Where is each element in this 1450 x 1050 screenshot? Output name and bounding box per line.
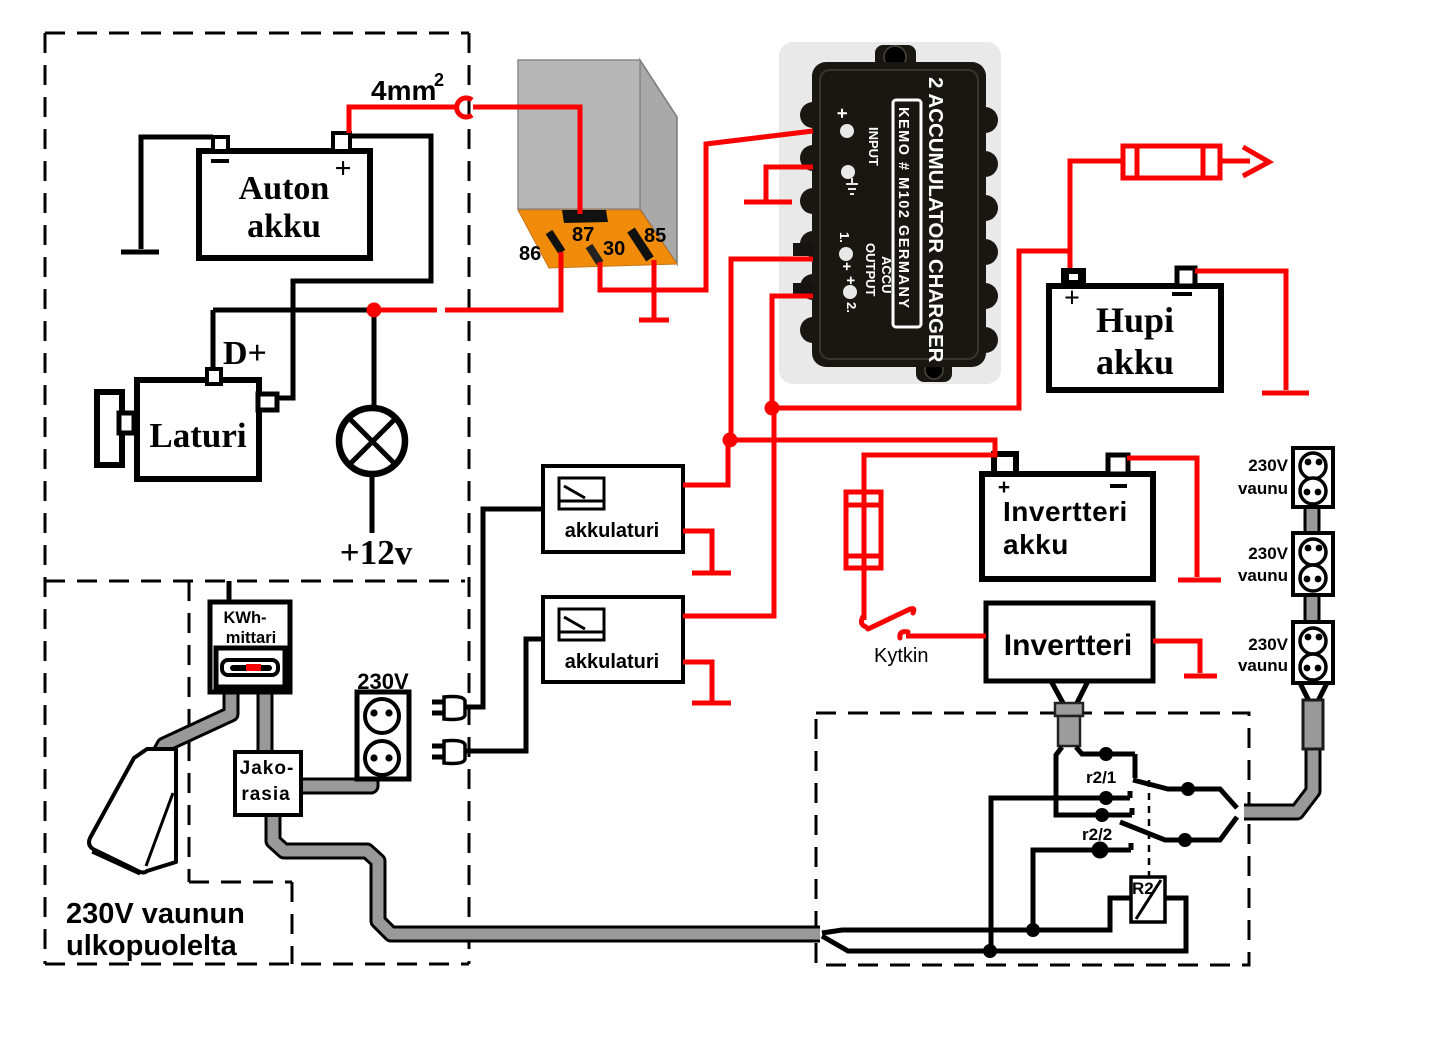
wire: contact row4	[1033, 843, 1131, 930]
ground: Invertteri ground	[1184, 674, 1217, 679]
wire: KWh-meter feed stub	[227, 581, 232, 602]
wire: contact row2	[991, 791, 1130, 951]
box: Jako-rasia	[235, 752, 301, 815]
wire: mains L to relay coil	[822, 898, 1132, 933]
node: junction on N wire	[983, 944, 997, 958]
svg-text:230V: 230V	[1248, 635, 1288, 654]
contact r2/1 arm	[1086, 768, 1237, 808]
wire: red Invertteri - to ground	[1153, 641, 1200, 673]
node: output2 junction dot	[765, 401, 780, 416]
node: row2 dot	[1099, 791, 1113, 805]
svg-text:230V: 230V	[1248, 456, 1288, 475]
svg-text:Invertteri: Invertteri	[1004, 629, 1132, 662]
svg-text:akku: akku	[1003, 529, 1069, 560]
svg-text:+: +	[838, 262, 855, 271]
svg-text:2 ACCUMULATOR CHARGER: 2 ACCUMULATOR CHARGER	[924, 77, 947, 363]
node: red junction at D+	[367, 303, 382, 318]
wire: mains N to relay coil	[822, 898, 1186, 951]
wire: red Hupi + up to fuse 2	[1070, 161, 1123, 268]
svg-text:+: +	[842, 276, 859, 285]
node: row4 dot	[1092, 842, 1109, 859]
wire: red akkulaturi1 output to bus	[683, 443, 728, 485]
wire: red KEMO output 2 down	[772, 296, 813, 405]
box: 230V outlet in caravan	[357, 669, 409, 779]
svg-text:Jako-: Jako-	[240, 758, 295, 779]
outdoor mains plug (CEE)	[89, 749, 176, 874]
wire: 230V cable Jako-rasia to 230V outlet	[301, 775, 371, 786]
svg-text:KEMO # M102 GERMANY: KEMO # M102 GERMANY	[895, 107, 911, 310]
ground: Hupi minus ground	[1262, 391, 1309, 396]
wire: D+ node wire	[213, 310, 374, 369]
outlet: 230V vaunu 1	[1238, 448, 1333, 507]
svg-text:+: +	[1064, 283, 1080, 314]
svg-text:4mm: 4mm	[371, 75, 436, 106]
svg-text:vaunu: vaunu	[1238, 479, 1288, 498]
wire: inverter output V to plug	[1051, 681, 1088, 703]
svg-text:KWh-: KWh-	[223, 609, 266, 627]
svg-text:OUTPUT: OUTPUT	[863, 243, 878, 297]
wire: plug L to contact row3	[1056, 747, 1132, 815]
text: 4mm2 wire label	[371, 70, 444, 106]
ground: relay 85 ground	[639, 318, 669, 323]
battery: Auton akku	[199, 133, 370, 258]
svg-text:INPUT: INPUT	[866, 127, 881, 166]
wire: red akkulaturi1 ground	[683, 531, 712, 571]
svg-text:ACCU: ACCU	[879, 256, 894, 294]
box: Laturi (alternator)	[97, 369, 277, 479]
svg-text:vaunu: vaunu	[1238, 566, 1288, 585]
svg-text:+12v: +12v	[340, 533, 413, 572]
wire: red Hupi - to ground	[1195, 271, 1286, 390]
wire: red output1 bus to Invertteri akku + and fuse	[731, 440, 995, 620]
wire: red from Auton akku + to relay 87	[349, 98, 580, 214]
contact r2/2 arm	[1082, 817, 1237, 847]
ground: akkulaturi2 ground	[692, 701, 731, 706]
wire: red relay 30 to KEMO input +	[600, 131, 813, 290]
fuse F2: Hupi battery fuse with arrow	[1123, 146, 1269, 178]
svg-text:Auton: Auton	[239, 170, 330, 207]
relay coil R2	[1131, 877, 1165, 922]
fuse F1: inverter battery fuse	[846, 492, 881, 568]
wire: red D+ node to relay 86	[380, 252, 561, 310]
relay: automotive relay (photo)	[518, 60, 677, 268]
svg-text:Kytkin: Kytkin	[874, 645, 928, 667]
svg-text:Laturi: Laturi	[149, 416, 247, 455]
wire: red Invertteri akku - to ground	[1127, 458, 1197, 577]
outlet: 230V vaunu 3	[1238, 622, 1333, 683]
plug: akkulaturi2 mains plug	[432, 741, 465, 764]
ground: car body ground	[121, 250, 159, 255]
svg-text:+: +	[334, 152, 351, 185]
plug P3: plug of outlet chain	[1300, 683, 1327, 749]
node: row1 dot	[1099, 747, 1113, 761]
wire: long 230V cable Jako-rasia to relay box	[273, 813, 820, 934]
node: output1 junction dot	[723, 433, 738, 448]
svg-text:+: +	[832, 108, 852, 119]
wire: red KEMO output 1 down	[731, 259, 813, 437]
dashed border: caravan boundary left box	[45, 33, 469, 964]
svg-text:r2/1: r2/1	[1086, 768, 1116, 787]
svg-text:85: 85	[644, 225, 666, 247]
svg-text:rasia: rasia	[241, 784, 290, 805]
wire: red relay 85 to ground	[652, 260, 657, 318]
outlet: 230V vaunu 2	[1238, 533, 1333, 595]
linkage: dashed actuator line	[1148, 780, 1151, 877]
svg-text:87: 87	[572, 224, 594, 246]
svg-text:r2/2: r2/2	[1082, 825, 1112, 844]
relay pin 30	[589, 246, 600, 263]
node: junction on L wire	[1026, 923, 1040, 937]
relay pin 86	[549, 232, 562, 252]
switch: Kytkin	[861, 609, 986, 667]
wire: 230V cable KWh-meter to Jako-rasia	[257, 688, 274, 755]
wire: Auton akku plus black wire to node	[278, 136, 431, 398]
svg-text:mittari: mittari	[226, 629, 276, 647]
ground: akkulaturi1 ground	[692, 571, 731, 576]
svg-text:akkulaturi: akkulaturi	[565, 520, 659, 542]
wire: akkulaturi1 230V input	[466, 509, 543, 707]
wire: Auton akku minus to ground	[141, 137, 213, 249]
wire: red akkulaturi2 ground	[683, 662, 712, 701]
wire: 230V cable KWh-meter to outdoor plug	[158, 688, 231, 756]
relay pin 87	[562, 210, 608, 223]
wire: 230V cable outlet1 to outlet2	[1304, 504, 1321, 537]
svg-text:Hupi: Hupi	[1096, 300, 1174, 340]
svg-text:vaunu: vaunu	[1238, 656, 1288, 675]
relay pin 85	[631, 230, 650, 259]
wire: plug N to contact row1	[1076, 747, 1135, 778]
plug: akkulaturi1 mains plug	[432, 697, 465, 720]
svg-text:ulkopuolelta: ulkopuolelta	[66, 930, 238, 962]
wire: 230V cable outlet3 plug to relay box	[1244, 747, 1313, 812]
box: Invertteri	[986, 603, 1153, 681]
svg-text:akkulaturi: akkulaturi	[565, 651, 659, 673]
box: KWh-mittari	[210, 602, 290, 692]
svg-text:D+: D+	[223, 335, 267, 372]
svg-text:230V vaunun: 230V vaunun	[66, 898, 245, 930]
wire: red output2 to Hupi akku +	[772, 251, 1070, 408]
svg-text:1.: 1.	[837, 232, 852, 243]
wire: red KEMO input - to ground	[766, 167, 813, 200]
svg-text:86: 86	[519, 243, 541, 265]
battery: Invertteri akku	[982, 454, 1153, 579]
node: row3 dot	[1095, 808, 1109, 822]
dashed border: relay r2 box bottom right	[816, 713, 1249, 965]
wire: akkulaturi2 230V input	[466, 639, 543, 751]
svg-text:230V: 230V	[1248, 544, 1288, 563]
svg-text:2.: 2.	[844, 302, 859, 313]
plug: inverter 230V plug	[1055, 703, 1083, 746]
battery: Hupi akku	[1049, 268, 1221, 390]
ground: Invertteri akku ground	[1178, 578, 1221, 583]
svg-text:akku: akku	[247, 208, 321, 245]
lamp: +12v indicator	[339, 312, 413, 572]
wire: 230V cable outlet2 to outlet3	[1304, 592, 1321, 623]
svg-text:Invertteri: Invertteri	[1003, 496, 1128, 527]
svg-text:2: 2	[434, 70, 444, 90]
KEMO 2-accumulator charger (photo)	[779, 42, 1001, 384]
svg-text:akku: akku	[1096, 342, 1174, 382]
svg-text:R2: R2	[1132, 879, 1154, 898]
box: akkulaturi 2	[543, 597, 683, 682]
ground: KEMO input ground	[744, 200, 792, 205]
text: 230V vaunun ulkopuolelta	[66, 898, 245, 962]
svg-text:30: 30	[603, 238, 625, 260]
box: akkulaturi 1	[543, 466, 683, 552]
wire: red output2 branch to akkulaturi2	[683, 408, 774, 616]
